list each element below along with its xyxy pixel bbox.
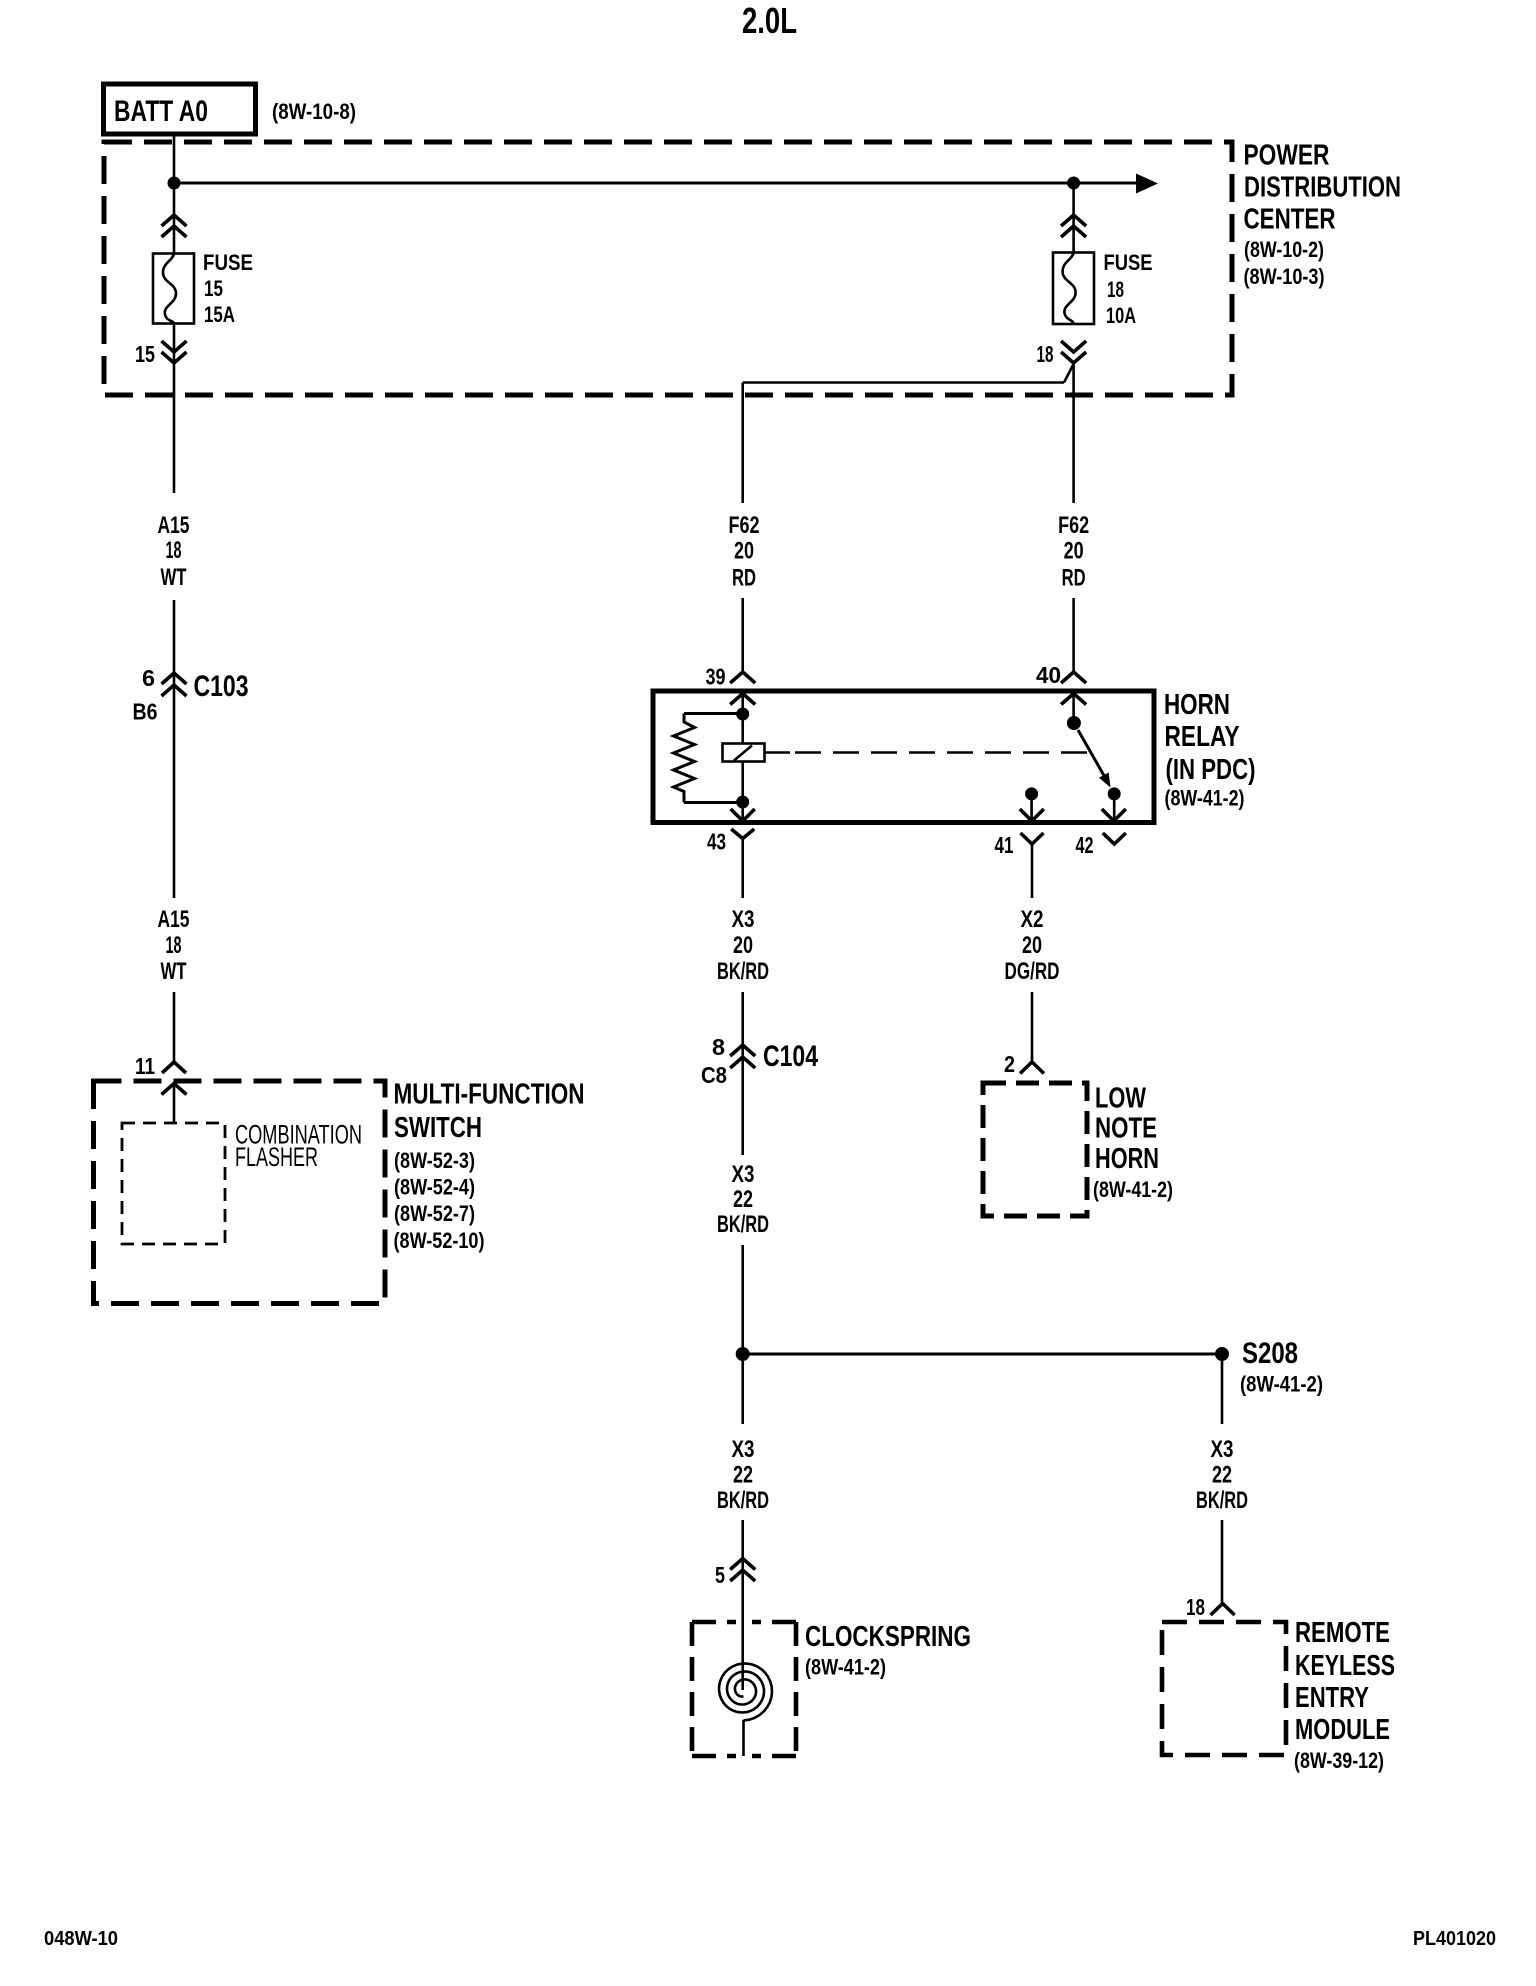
battery feed box BATT A0 (104, 84, 256, 134)
svg-text:S208: S208 (1242, 1337, 1298, 1370)
svg-text:18: 18 (1037, 341, 1054, 367)
svg-text:11: 11 (135, 1053, 155, 1079)
wire label X3 22 BK/RD clockspring (717, 1436, 769, 1514)
combination flasher box (122, 1123, 225, 1244)
svg-text:CENTER: CENTER (1244, 204, 1336, 236)
svg-text:X3: X3 (1211, 1436, 1234, 1463)
title 2.0L (742, 0, 797, 41)
low note horn box (983, 1083, 1087, 1216)
svg-text:22: 22 (1212, 1462, 1232, 1489)
remote keyless entry module box (1162, 1622, 1286, 1755)
pin 15 label (135, 341, 155, 367)
svg-text:ENTRY: ENTRY (1295, 1682, 1369, 1714)
relay control dashed line (765, 751, 1088, 753)
connector C103 (133, 665, 249, 725)
svg-text:40: 40 (1036, 662, 1061, 688)
wire F62 left lower (741, 598, 744, 672)
svg-text:RELAY: RELAY (1165, 721, 1240, 753)
svg-text:C104: C104 (763, 1040, 818, 1073)
relay coil wire (741, 714, 744, 802)
svg-text:22: 22 (733, 1186, 753, 1213)
svg-text:C8: C8 (701, 1062, 727, 1088)
svg-text:B6: B6 (133, 699, 158, 725)
node at fuse 18 (1067, 177, 1080, 190)
svg-text:MULTI-FUNCTION: MULTI-FUNCTION (394, 1079, 585, 1111)
svg-text:(8W-52-10): (8W-52-10) (394, 1228, 485, 1253)
svg-text:BK/RD: BK/RD (717, 958, 769, 985)
label clockspring (805, 1621, 971, 1680)
reference (8W-10-8) (272, 99, 356, 124)
power distribution center box (104, 142, 1232, 395)
pin 39 inner chevron (730, 694, 755, 715)
connector C104 (701, 1034, 818, 1088)
svg-text:15: 15 (204, 276, 223, 301)
svg-text:SWITCH: SWITCH (394, 1112, 482, 1144)
svg-text:18: 18 (166, 932, 182, 959)
svg-text:(8W-39-12): (8W-39-12) (1294, 1748, 1384, 1773)
wire to multi-function switch (173, 992, 176, 1062)
svg-text:BATT A0: BATT A0 (114, 95, 208, 128)
svg-text:DG/RD: DG/RD (1005, 958, 1060, 985)
wire to low note horn (1031, 992, 1034, 1062)
svg-text:NOTE: NOTE (1095, 1113, 1157, 1145)
svg-text:20: 20 (1022, 932, 1042, 959)
footer left 048W-10 (44, 1928, 118, 1950)
svg-text:2.0L: 2.0L (742, 0, 797, 41)
label combination flasher (235, 1120, 362, 1173)
label multi-function switch (394, 1079, 585, 1254)
clockspring box (692, 1622, 796, 1756)
wire node to fuse 15 (173, 183, 176, 254)
horn relay box (653, 691, 1154, 823)
pin 2 (1004, 1051, 1044, 1077)
svg-text:CLOCKSPRING: CLOCKSPRING (805, 1621, 971, 1653)
svg-text:(8W-10-2): (8W-10-2) (1244, 237, 1324, 262)
svg-text:F62: F62 (1058, 512, 1089, 539)
wire from BATT A0 to node (173, 134, 176, 183)
multi-function switch box (94, 1081, 386, 1304)
wire label X2 20 DG/RD (1005, 906, 1060, 985)
relay coil node top (736, 708, 749, 721)
wire to S208 (741, 1245, 744, 1354)
branch wire to relay pin 39 (743, 364, 1074, 503)
pin 41 label (995, 832, 1014, 858)
svg-text:X2: X2 (1021, 906, 1044, 933)
svg-text:BK/RD: BK/RD (717, 1487, 769, 1514)
svg-text:(IN PDC): (IN PDC) (1166, 754, 1256, 786)
svg-text:KEYLESS: KEYLESS (1295, 1650, 1395, 1682)
svg-text:FUSE: FUSE (203, 250, 253, 275)
svg-text:PL401020: PL401020 (1413, 1928, 1496, 1950)
svg-text:(8W-41-2): (8W-41-2) (1093, 1177, 1173, 1202)
svg-text:20: 20 (1064, 538, 1084, 565)
svg-text:FLASHER: FLASHER (235, 1142, 318, 1172)
svg-text:18: 18 (1107, 277, 1124, 302)
label low note horn (1093, 1083, 1173, 1203)
pin 15 chevrons (162, 341, 187, 363)
wire fuse 18 down (1072, 363, 1075, 503)
svg-text:BK/RD: BK/RD (717, 1211, 769, 1238)
connector chevrons above fuse 18 (1061, 215, 1086, 237)
svg-text:048W-10: 048W-10 (44, 1928, 118, 1950)
relay contact node 41 (1025, 787, 1038, 800)
svg-text:20: 20 (733, 932, 753, 959)
node at fuse 15 (168, 177, 181, 190)
bus wire with arrow (174, 174, 1158, 194)
svg-text:A15: A15 (158, 512, 190, 539)
wire pin 43 down (741, 839, 744, 899)
svg-text:(8W-52-3): (8W-52-3) (394, 1148, 475, 1173)
wire to pin 18 (1221, 1520, 1224, 1604)
svg-text:WT: WT (161, 564, 187, 591)
pin 11 inner chevron (162, 1084, 187, 1124)
svg-text:F62: F62 (729, 512, 760, 539)
svg-text:DISTRIBUTION: DISTRIBUTION (1244, 172, 1401, 204)
svg-text:REMOTE: REMOTE (1295, 1617, 1390, 1649)
svg-text:(8W-10-8): (8W-10-8) (272, 99, 356, 124)
svg-text:WT: WT (161, 958, 187, 985)
svg-text:X3: X3 (732, 1161, 755, 1188)
svg-text:(8W-10-3): (8W-10-3) (1244, 264, 1325, 289)
label remote keyless entry module (1294, 1617, 1395, 1773)
svg-text:22: 22 (733, 1462, 753, 1489)
svg-text:FUSE: FUSE (1104, 250, 1153, 275)
relay switch common node (1067, 716, 1081, 730)
relay switch arm (1078, 730, 1111, 788)
pin 41 wire and chevrons (1020, 794, 1044, 898)
svg-text:20: 20 (734, 538, 754, 565)
wire to C104 (741, 992, 744, 1155)
wire F62 right lower (1072, 598, 1075, 672)
svg-text:(8W-52-7): (8W-52-7) (394, 1201, 475, 1226)
wire label X3 22 BK/RD upper (717, 1161, 769, 1238)
wire label A15 18 WT upper (158, 512, 190, 591)
svg-text:42: 42 (1076, 832, 1094, 858)
svg-text:41: 41 (995, 832, 1014, 858)
fuse 15 15A (153, 254, 194, 324)
svg-text:39: 39 (706, 664, 726, 690)
svg-text:18: 18 (1186, 1594, 1205, 1620)
svg-text:RD: RD (1062, 565, 1086, 592)
svg-text:6: 6 (142, 665, 155, 691)
connector chevrons above fuse 15 (162, 215, 187, 237)
svg-text:X3: X3 (732, 906, 755, 933)
pin 39 (706, 664, 756, 690)
wire node to fuse 18 (1072, 183, 1075, 253)
wire label X3 22 BK/RD RKE (1196, 1436, 1248, 1514)
wire to pin 5 (741, 1520, 744, 1622)
pin 5 (715, 1559, 755, 1589)
svg-text:15: 15 (135, 341, 155, 367)
pin 11 (135, 1053, 186, 1079)
svg-text:HORN: HORN (1164, 689, 1230, 721)
svg-text:5: 5 (715, 1562, 725, 1588)
footer right PL401020 (1413, 1928, 1496, 1950)
svg-text:HORN: HORN (1095, 1143, 1159, 1175)
fuse 18 10A (1053, 253, 1094, 325)
wire label F62 20 RD right (1058, 512, 1089, 592)
wire fuse 15 down to A15 label (173, 324, 176, 494)
splice S208 (736, 1347, 1229, 1361)
svg-text:MODULE: MODULE (1295, 1714, 1390, 1746)
relay coil node bottom (736, 796, 749, 809)
svg-text:POWER: POWER (1244, 140, 1330, 172)
wire label F62 20 RD left (729, 512, 760, 592)
svg-text:2: 2 (1004, 1051, 1015, 1077)
svg-text:43: 43 (707, 829, 726, 855)
relay coil box (723, 744, 765, 762)
svg-text:C103: C103 (194, 670, 249, 703)
pin 18 chevrons (1061, 341, 1086, 363)
svg-text:BK/RD: BK/RD (1196, 1487, 1248, 1514)
pin 43 wire and chevrons (731, 802, 755, 839)
svg-text:X3: X3 (732, 1436, 755, 1463)
pin 42 wire and chevrons (1102, 794, 1126, 844)
relay coil resistor (674, 714, 743, 803)
pin 18 RKE (1186, 1594, 1235, 1620)
svg-text:18: 18 (166, 537, 182, 564)
wire label X3 20 BK/RD (717, 906, 769, 985)
pin 42 label (1076, 832, 1094, 858)
pin 40 (1036, 662, 1086, 688)
pin 43 label (707, 829, 726, 855)
svg-text:8: 8 (712, 1034, 725, 1060)
svg-text:RD: RD (732, 565, 756, 592)
label POWER DISTRIBUTION CENTER (1244, 140, 1402, 290)
wire to C103 (173, 600, 176, 898)
svg-text:15A: 15A (204, 302, 235, 327)
pin 18 label (1037, 341, 1054, 367)
svg-text:(8W-52-4): (8W-52-4) (394, 1175, 475, 1200)
fuse 15 labels (203, 250, 253, 327)
svg-text:(8W-41-2): (8W-41-2) (805, 1655, 886, 1680)
svg-text:10A: 10A (1106, 303, 1136, 328)
svg-text:LOW: LOW (1095, 1083, 1146, 1115)
wire label A15 18 WT lower (158, 906, 190, 985)
wire S208 to RKE (1221, 1354, 1224, 1424)
fuse 18 labels (1104, 250, 1153, 328)
clockspring coil (719, 1622, 772, 1756)
label S208 (1240, 1337, 1323, 1397)
svg-text:(8W-41-2): (8W-41-2) (1240, 1372, 1323, 1397)
label horn relay (1164, 689, 1256, 811)
relay contact node 42 (1108, 787, 1121, 800)
svg-text:(8W-41-2): (8W-41-2) (1165, 786, 1245, 811)
svg-text:A15: A15 (158, 906, 190, 933)
pin 40 inner chevron (1061, 694, 1086, 724)
wire S208 to clockspring (741, 1354, 744, 1424)
